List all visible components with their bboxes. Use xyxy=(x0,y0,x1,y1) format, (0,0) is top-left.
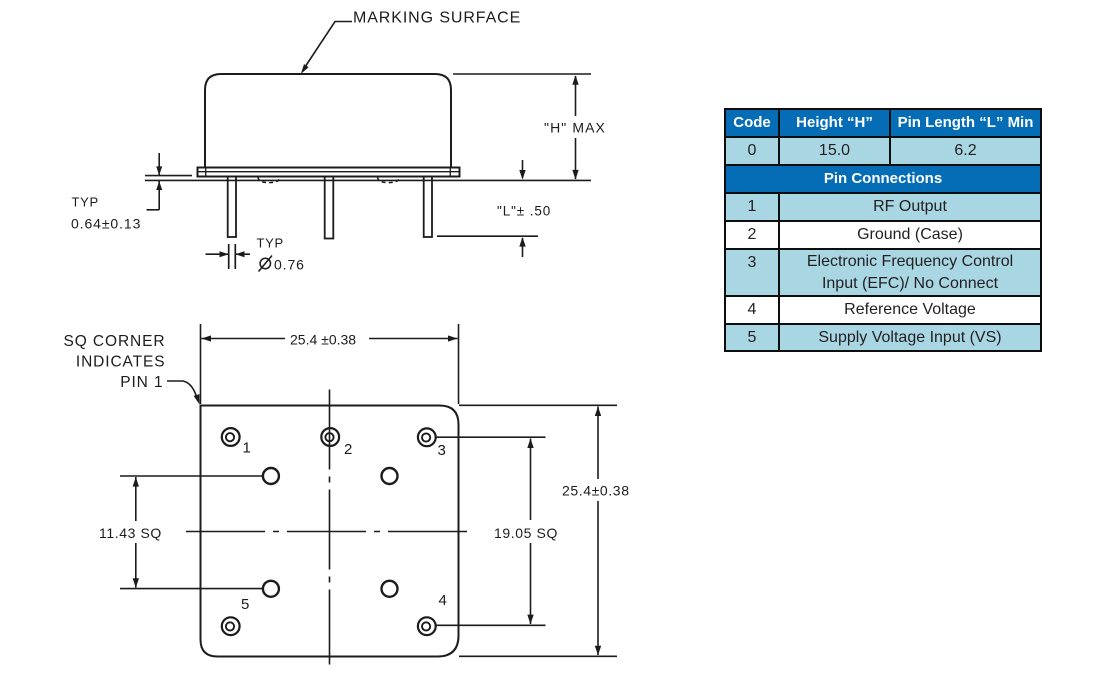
grommet pin 3 xyxy=(418,428,436,446)
seating plane line xyxy=(145,179,591,181)
svg-text:25.4 ±0.38: 25.4 ±0.38 xyxy=(290,332,356,348)
marking surface leader xyxy=(303,22,352,71)
svg-text:11.43 SQ: 11.43 SQ xyxy=(99,525,162,541)
L dimension lower arrow xyxy=(522,238,524,257)
right dim extension lines xyxy=(459,404,617,406)
svg-text:25.4±0.38: 25.4±0.38 xyxy=(562,483,630,499)
svg-text:1: 1 xyxy=(243,440,251,457)
svg-text:0.76: 0.76 xyxy=(274,257,305,273)
dia 0.76 value xyxy=(260,258,270,268)
base plate xyxy=(198,168,460,177)
svg-text:SQ CORNER: SQ CORNER xyxy=(64,333,166,350)
pin diameter right arrow xyxy=(235,253,250,255)
grommet pin 1 xyxy=(222,428,240,446)
svg-text:0.64±0.13: 0.64±0.13 xyxy=(71,216,141,232)
can outline xyxy=(205,74,451,168)
grommet pin bottom-right xyxy=(418,617,436,635)
svg-text:"H" MAX: "H" MAX xyxy=(544,120,606,136)
SQ corner leader xyxy=(167,381,198,400)
top dimension line 25.4 xyxy=(202,338,286,340)
svg-text:INDICATES: INDICATES xyxy=(76,354,166,371)
vertical centerline xyxy=(329,390,331,665)
svg-text:TYP: TYP xyxy=(72,195,99,210)
grommet pin bottom-left xyxy=(222,617,240,635)
horizontal centerline xyxy=(186,531,470,533)
svg-text:PIN 1: PIN 1 xyxy=(120,374,163,391)
can wall tick right through plate xyxy=(449,168,451,177)
11.43 extension lines xyxy=(120,475,263,477)
pin left (side view) xyxy=(228,177,236,238)
pin right (side view) xyxy=(424,177,432,238)
19.05 dimension line xyxy=(530,439,532,521)
pin diameter witness ticks xyxy=(228,244,230,269)
grommet pin 2 xyxy=(321,428,339,446)
L dimension upper arrow xyxy=(522,160,524,178)
pin bottom extension line xyxy=(437,235,538,237)
plate bottom extension line xyxy=(145,175,192,177)
hole bottom-right xyxy=(382,581,398,597)
right dimension line 25.4 xyxy=(597,407,599,480)
H dimension extension line xyxy=(453,73,591,75)
pin middle (side view) xyxy=(325,177,334,239)
hole top-left xyxy=(263,468,279,484)
top dim extension lines xyxy=(200,324,202,404)
svg-text:5: 5 xyxy=(241,596,249,613)
pin connection table xyxy=(724,108,1040,352)
0.64 dimension line xyxy=(158,153,160,175)
seal bump right (dashed) xyxy=(378,177,400,183)
hole bottom-left xyxy=(263,581,279,597)
svg-text:3: 3 xyxy=(438,442,446,459)
svg-text:TYP: TYP xyxy=(257,236,284,251)
base plate mid line xyxy=(198,171,460,173)
11.43 dimension line xyxy=(135,477,137,521)
seal bump left (dashed) xyxy=(258,177,280,183)
package outline (square corner top-left) xyxy=(201,406,459,657)
svg-text:4: 4 xyxy=(439,592,447,609)
svg-text:2: 2 xyxy=(344,441,352,458)
hole top-right xyxy=(382,468,398,484)
svg-text:19.05 SQ: 19.05 SQ xyxy=(494,525,558,541)
pin diameter left arrow xyxy=(206,253,229,255)
19.05 extension lines xyxy=(437,436,546,438)
svg-text:"L"± .50: "L"± .50 xyxy=(497,204,551,219)
svg-text:MARKING SURFACE: MARKING SURFACE xyxy=(353,10,521,27)
H dimension line xyxy=(575,76,577,116)
can wall tick left through plate xyxy=(205,168,207,177)
11.43 text xyxy=(96,522,162,541)
